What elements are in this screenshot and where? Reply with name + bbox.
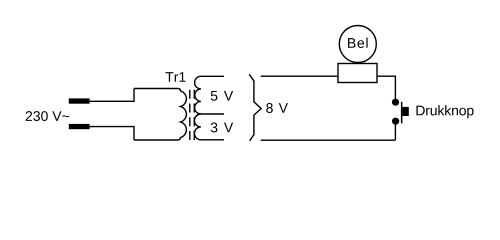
wire bell to right corner xyxy=(377,76,395,102)
junction dot 2 (push button bottom contact) xyxy=(392,118,399,125)
label Bel xyxy=(348,38,368,48)
push button actuator square xyxy=(402,107,408,116)
label 5 V xyxy=(211,91,233,101)
label 3 V xyxy=(211,123,233,133)
wire primary top lead xyxy=(90,89,134,102)
terminal top (230V plug) xyxy=(69,98,90,103)
brace for 8V xyxy=(249,74,261,141)
wire primary bottom lead xyxy=(90,127,134,140)
transformer Tr1 secondary winding 5V section xyxy=(195,76,224,114)
wire right loop bottom xyxy=(261,139,396,141)
junction dot 1 (push button top contact) xyxy=(392,99,399,106)
label Tr1 xyxy=(166,72,186,82)
push button contact bar xyxy=(401,102,403,124)
transformer Tr1 primary winding xyxy=(134,89,186,141)
wire right loop top xyxy=(261,75,338,77)
label Drukknop xyxy=(416,105,473,118)
bell gong circle xyxy=(339,26,376,63)
wire right vertical below button xyxy=(394,121,396,140)
label 230 V~ xyxy=(26,111,69,121)
bell striker box xyxy=(338,64,377,83)
transformer core dashed line 1 xyxy=(189,90,191,141)
transformer core dashed line 2 xyxy=(193,90,195,141)
label 8 V xyxy=(266,103,288,113)
terminal bottom (230V plug) xyxy=(69,124,90,129)
transformer Tr1 secondary winding 3V section xyxy=(194,114,224,140)
